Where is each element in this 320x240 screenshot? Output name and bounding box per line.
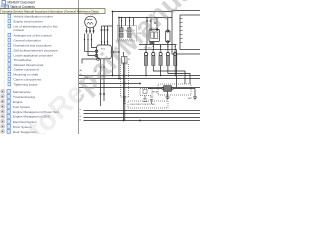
junction node (112.5,75.5) — [112, 75, 114, 77]
tree items section B with expanders — [1, 90, 59, 134]
junction node (175.2,75.5) — [174, 75, 176, 77]
junction node (146,75.5) — [145, 75, 147, 77]
relay K1 — [149, 30, 160, 42]
svg-text:RELAY: RELAY — [152, 91, 159, 94]
value labels — [80, 13, 193, 122]
junction node (123.5,121) — [123, 120, 125, 122]
svg-text:Maintenance: Maintenance — [13, 90, 31, 94]
resistor block R1 box — [140, 89, 152, 96]
wire bus B1 — [79, 75, 200, 77]
root row icon — [2, 1, 5, 5]
svg-text:General information: General information — [14, 39, 41, 43]
junction dots — [112, 11, 176, 122]
sensor S1 — [122, 57, 128, 64]
ignition coil assembly box — [118, 26, 137, 42]
legend box — [128, 101, 168, 108]
ECU U1 — [97, 45, 112, 59]
svg-text:Cast-in components: Cast-in components — [14, 78, 42, 82]
connector pin stubs — [180, 19, 183, 43]
wire G1 to U1 — [85, 34, 96, 52]
wire sensor inputs to U1 — [102, 26, 108, 45]
ECU connector box outer — [172, 11, 212, 55]
junction node (124.8,84) — [124, 83, 126, 85]
wire injector stubs — [146, 45, 175, 50]
junction node (169,17.5) — [167, 17, 169, 19]
svg-text:Tightening torque: Tightening torque — [14, 83, 38, 87]
wire bus B7 — [84, 117, 201, 119]
wire H1 — [113, 11, 173, 13]
svg-text:Self-locking fasteners procedu: Self-locking fasteners procedure — [14, 49, 59, 53]
wire V2 — [118, 18, 120, 79]
row2 expander — [1, 5, 4, 8]
junction node (129.5,17.5) — [129, 17, 131, 19]
wire G1 leads — [86, 28, 88, 34]
wire bus B5 — [84, 110, 201, 112]
connector pin arrows — [84, 39, 93, 41]
svg-text:Fuel System: Fuel System — [13, 105, 31, 109]
svg-text:Yamaha Service Manual Importan: Yamaha Service Manual Important Informat… — [2, 9, 99, 13]
wire pair V3 — [123, 63, 125, 121]
svg-text:FUEL INJECTION SYSTEM: FUEL INJECTION SYSTEM — [130, 104, 155, 106]
wire bus B2 — [79, 78, 200, 80]
ECU connector box inner — [180, 15, 220, 50]
junction node (167.9,49.7) — [167, 49, 169, 51]
svg-text:Mounting on shaft: Mounting on shaft — [14, 73, 39, 77]
divider over tooltip — [78, 8, 80, 14]
junction node (153.3,49.7) — [153, 49, 155, 51]
junction node (147,17.5) — [146, 17, 148, 19]
panel divider — [78, 0, 80, 134]
svg-text:Troubleshooting: Troubleshooting — [13, 95, 35, 99]
tooltip — [0, 9, 105, 14]
fuse links F2 — [143, 96, 153, 105]
junction node (140,84) — [139, 83, 141, 85]
junction node (119,17.5) — [118, 17, 120, 19]
wire node A — [102, 25, 113, 27]
fuel pump relay K2 box — [158, 84, 191, 95]
junction node (146,49.7) — [145, 49, 147, 51]
tree items section A — [8, 14, 58, 86]
magneto G1 — [85, 16, 97, 28]
wire H4 injector feed — [139, 44, 177, 46]
left tree panel — [1, 1, 35, 134]
svg-text:Arrangement of this manual: Arrangement of this manual — [14, 34, 52, 38]
wire K1 outputs — [151, 43, 168, 45]
junction node (119,78.5) — [118, 78, 120, 80]
junction node (160.6,75.5) — [160, 75, 162, 77]
wire bus B4 — [79, 87, 200, 89]
injectors INJ1-INJ5 — [144, 51, 176, 55]
junction node (160.6,49.7) — [160, 49, 162, 51]
wire V4 — [176, 50, 178, 88]
svg-text:Vehicle identification number: Vehicle identification number — [14, 15, 53, 19]
wire U1 ground lead — [82, 59, 97, 64]
tree dotted line — [4, 6, 6, 133]
svg-text:Gasket compound: Gasket compound — [14, 68, 39, 72]
ground — [193, 97, 197, 100]
junction node (140,121) — [139, 120, 141, 122]
junction node (155,17.5) — [154, 17, 156, 19]
svg-text:manual: manual — [14, 28, 24, 32]
svg-text:Engine: Engine — [13, 100, 23, 104]
wire H2 rail — [119, 17, 172, 19]
svg-text:Loctite application procedure: Loctite application procedure — [14, 54, 54, 58]
wire H3 injector bus — [139, 49, 178, 51]
svg-text:MS460Y Document: MS460Y Document — [8, 1, 36, 5]
wire bus B3 — [79, 83, 140, 85]
wire V1 — [112, 12, 114, 76]
junction node (121.5,17.5) — [121, 17, 123, 19]
wire bus B8 — [84, 120, 201, 122]
svg-text:Illustrations and procedures: Illustrations and procedures — [14, 44, 52, 48]
svg-text:Engine serial number: Engine serial number — [14, 20, 43, 24]
svg-text:Stripped thread repair: Stripped thread repair — [14, 63, 44, 67]
wire bus B6 — [84, 113, 201, 115]
wire U1 outputs — [100, 59, 102, 106]
row2 icon — [5, 5, 8, 9]
connector J1 — [86, 31, 95, 32]
sensor block box with diodes D1 D2 — [121, 64, 129, 97]
svg-text:Threadlocker: Threadlocker — [14, 58, 32, 62]
junction node (119,52) — [118, 51, 120, 53]
wire H2 to K1 — [147, 18, 168, 45]
junction node (112.5,11.5) — [112, 11, 114, 13]
ground — [166, 97, 170, 100]
junction node (175.2,49.7) — [174, 49, 176, 51]
wire injector returns — [146, 66, 190, 85]
wire U1 to V2 — [114, 51, 120, 53]
